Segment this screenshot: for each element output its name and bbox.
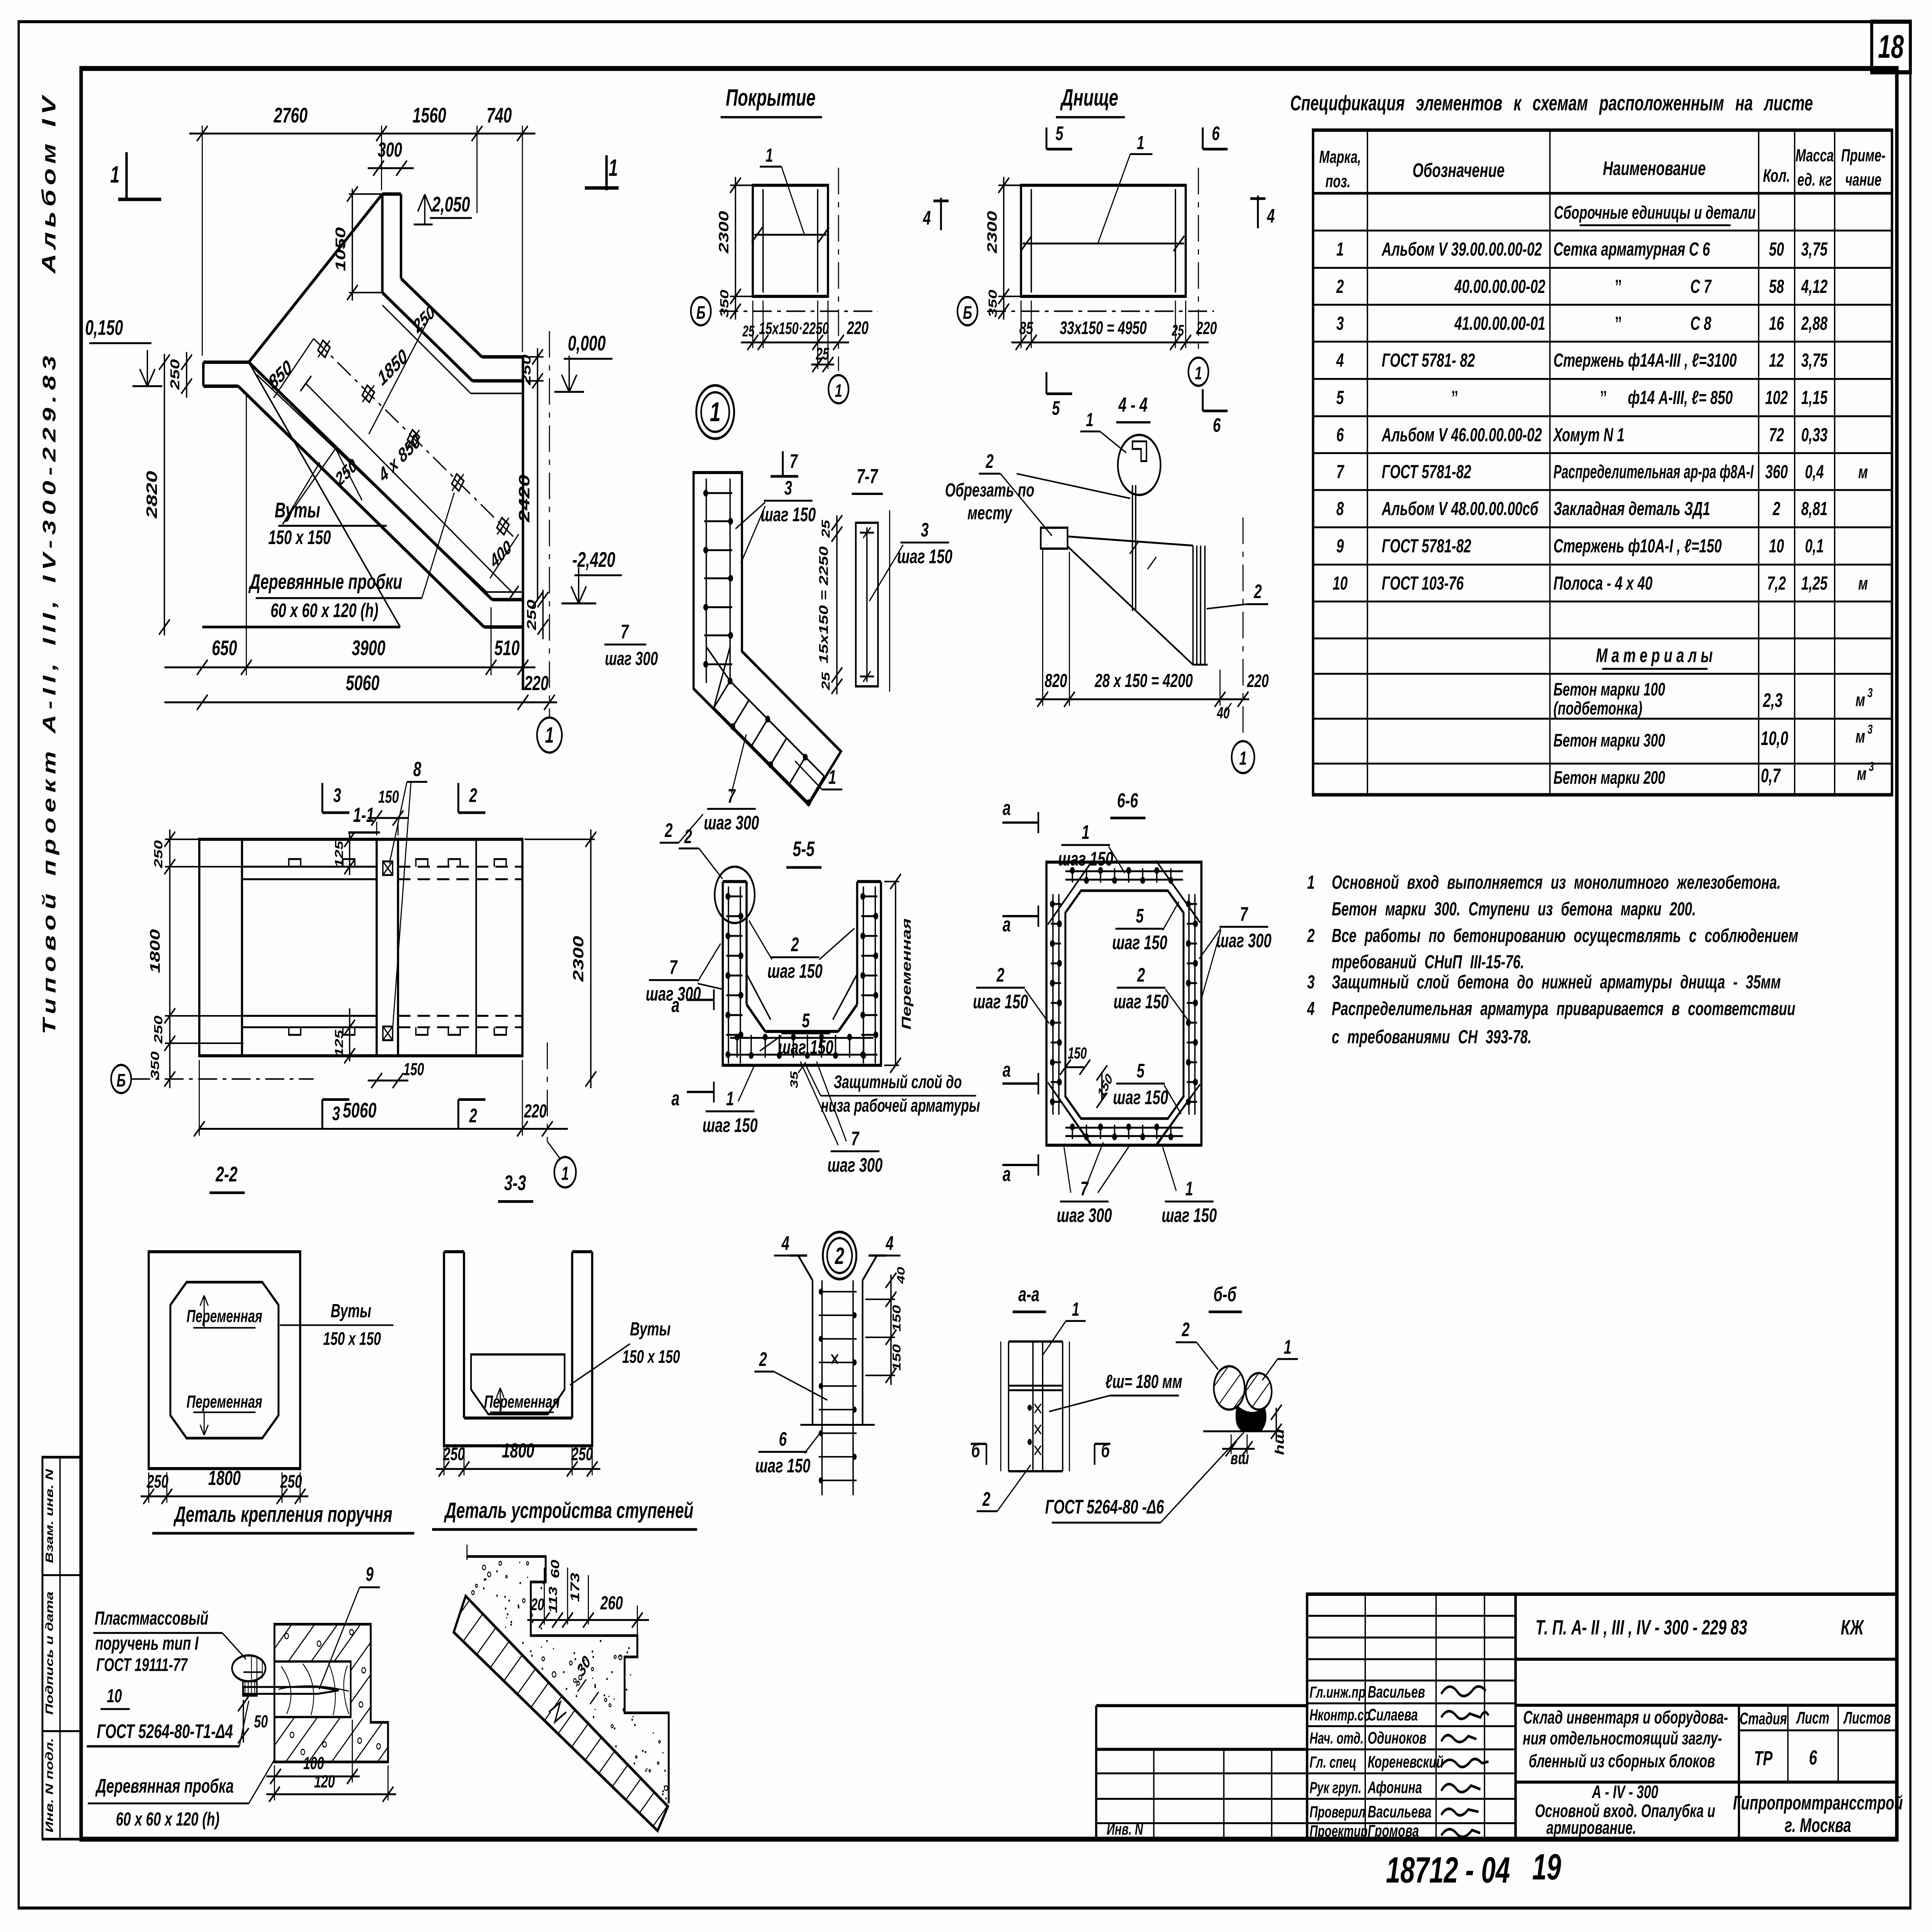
svg-text:1-1: 1-1 xyxy=(353,803,374,826)
svg-text:25: 25 xyxy=(820,672,832,690)
svg-text:7: 7 xyxy=(1336,461,1344,483)
svg-text:510: 510 xyxy=(494,636,520,660)
svg-text:м: м xyxy=(1858,573,1868,594)
svg-text:Гл. спец: Гл. спец xyxy=(1310,1753,1356,1771)
corner wall reinforcement section xyxy=(694,473,841,806)
plan: level mark 0.000 xyxy=(554,332,612,392)
svg-text:2: 2 xyxy=(469,1105,477,1127)
svg-text:Б: Б xyxy=(696,302,706,323)
svg-text:шаг 150: шаг 150 xyxy=(702,1114,758,1136)
5-5: label 7 shag 300 left xyxy=(646,944,723,1005)
svg-text:2: 2 xyxy=(1182,1319,1190,1340)
svg-text:Альбом V 46.00.00.00-02: Альбом V 46.00.00.00-02 xyxy=(1381,424,1542,446)
svg-text:6-6: 6-6 xyxy=(1117,789,1138,812)
plan: diagonal dim 1850 xyxy=(369,318,430,434)
svg-text:м: м xyxy=(1855,690,1865,710)
svg-text:250: 250 xyxy=(280,1471,302,1492)
svg-text:4: 4 xyxy=(923,207,931,229)
title block organisation xyxy=(1733,1792,1903,1837)
specification table grid xyxy=(1313,130,1892,795)
svg-text:150: 150 xyxy=(890,1305,903,1332)
svg-text:250: 250 xyxy=(151,840,165,869)
svg-text:ТР: ТР xyxy=(1754,1747,1772,1770)
svg-text:ГОСТ 5264-80 -Δ6: ГОСТ 5264-80 -Δ6 xyxy=(1045,1496,1164,1518)
svg-text:6: 6 xyxy=(1336,424,1344,446)
svg-text:ния отдельностоящий заглу-: ния отдельностоящий заглу- xyxy=(1523,1728,1722,1748)
a-a: label 1 xyxy=(1043,1299,1086,1354)
5-5: zashchitny sloi note xyxy=(788,1062,980,1116)
svg-text:1050: 1050 xyxy=(333,227,349,271)
title block stage/sheet xyxy=(1740,1708,1891,1770)
plan: wooden plug axis (dash-dot) xyxy=(314,338,513,536)
svg-text:м: м xyxy=(1857,764,1867,784)
handrail: concrete block with recess xyxy=(274,1624,388,1762)
1-1: bottom dims 5060/220 xyxy=(194,1060,568,1136)
svg-text:Все работы по бетонированию: Все работы по бетонированию осуществлять… xyxy=(1332,925,1798,946)
plan: diagonal dim 400 xyxy=(487,534,519,578)
svg-text:60: 60 xyxy=(548,1560,561,1578)
plan: dim 250 left xyxy=(168,352,192,398)
svg-text:Масса: Масса xyxy=(1796,146,1834,165)
title 3-3 xyxy=(498,1172,533,1202)
svg-text:4: 4 xyxy=(781,1233,789,1254)
svg-text:Б: Б xyxy=(117,1070,126,1090)
svg-text:1800: 1800 xyxy=(148,929,163,973)
plan view: entrance walls outline xyxy=(202,194,523,690)
svg-text:Деревянные пробки: Деревянные пробки xyxy=(248,570,402,594)
5-5: label 7 shag 300 bottom xyxy=(800,1061,883,1176)
svg-text:220: 220 xyxy=(1247,671,1269,691)
steps: concrete profile with stipple xyxy=(467,1556,669,1803)
svg-text:0,150: 0,150 xyxy=(85,316,123,340)
1-1: left dims 250/1800/250/350 xyxy=(148,830,243,1088)
svg-text:1: 1 xyxy=(1072,1299,1079,1320)
svg-text:Переменная: Переменная xyxy=(187,1306,262,1326)
svg-text:Т. П. А- II , III , IV - 300: Т. П. А- II , III , IV - 300 - 229 83 xyxy=(1536,1615,1747,1639)
svg-text:10: 10 xyxy=(1333,573,1348,594)
svg-text:а: а xyxy=(1003,796,1011,820)
1-1: dim 2300 right xyxy=(525,830,596,1088)
plan: bottom dim chain 5060/220 xyxy=(164,672,557,710)
bottom slab plan xyxy=(1021,185,1186,297)
4-4: axis bubble 1 xyxy=(1232,517,1255,773)
svg-text:Хомут N 1: Хомут N 1 xyxy=(1553,424,1625,446)
handwritten archive number xyxy=(1386,1847,1561,1891)
1-1: axis bubble 1 xyxy=(547,1043,576,1187)
svg-text:3-3: 3-3 xyxy=(504,1172,526,1195)
svg-text:100: 100 xyxy=(303,1753,324,1773)
svg-text:820: 820 xyxy=(1045,670,1068,691)
svg-text:шаг 150: шаг 150 xyxy=(1058,848,1113,870)
6-6: label 1 shag 150 bottom xyxy=(1162,1147,1217,1227)
svg-text:Полоса - 4 х 40: Полоса - 4 х 40 xyxy=(1553,573,1653,594)
svg-text:1: 1 xyxy=(110,162,119,188)
1-1: section marks 2 xyxy=(458,783,485,1129)
svg-text:2-2: 2-2 xyxy=(215,1163,238,1186)
svg-text:1800: 1800 xyxy=(208,1466,241,1490)
title Dnishche xyxy=(1056,85,1125,117)
svg-text:Днище: Днище xyxy=(1060,85,1118,111)
svg-text:Нач. отд.: Нач. отд. xyxy=(1310,1730,1364,1747)
svg-text:25: 25 xyxy=(1172,322,1184,339)
svg-text:15x150 = 2250: 15x150 = 2250 xyxy=(817,546,831,664)
svg-text:5: 5 xyxy=(1336,387,1344,408)
svg-text:Переменная: Переменная xyxy=(484,1392,560,1412)
svg-text:5: 5 xyxy=(1137,1060,1145,1082)
svg-text:2: 2 xyxy=(1137,964,1145,986)
2-2: bottom dims xyxy=(141,1466,308,1504)
svg-text:6: 6 xyxy=(1213,415,1221,436)
svg-text:а: а xyxy=(672,993,680,1017)
svg-text:Кол.: Кол. xyxy=(1763,165,1790,186)
svg-text:ГОСТ 5781-82: ГОСТ 5781-82 xyxy=(1382,461,1471,483)
svg-text:2: 2 xyxy=(982,1488,990,1510)
section 3-3 channel xyxy=(444,1252,592,1446)
a-a: label 2 bottom xyxy=(977,1465,1031,1511)
page number box 18 xyxy=(1872,22,1910,72)
svg-text:чание: чание xyxy=(1845,170,1881,190)
svg-text:Афонина: Афонина xyxy=(1367,1778,1422,1796)
cover slab: centreline and bubble 1 xyxy=(828,168,849,403)
svg-text:4 - 4: 4 - 4 xyxy=(1118,393,1148,416)
svg-text:2,3: 2,3 xyxy=(1763,690,1783,711)
svg-text:Б: Б xyxy=(963,302,972,323)
svg-text:ГОСТ 5781-82: ГОСТ 5781-82 xyxy=(1382,536,1471,557)
svg-text:а: а xyxy=(672,1087,680,1110)
cover slab: axis B xyxy=(691,297,878,325)
svg-text:1: 1 xyxy=(1284,1336,1291,1358)
svg-text:3: 3 xyxy=(1307,971,1315,993)
svg-text:шаг 150: шаг 150 xyxy=(755,1455,810,1477)
svg-text:2820: 2820 xyxy=(143,471,160,519)
svg-text:33x150 = 4950: 33x150 = 4950 xyxy=(1060,318,1147,338)
plan: wooden plugs xyxy=(318,340,509,535)
svg-text:Стадия: Стадия xyxy=(1740,1709,1787,1728)
svg-text:1: 1 xyxy=(545,723,554,747)
svg-text:Листов: Листов xyxy=(1843,1708,1891,1727)
plan: dim 1050 xyxy=(333,186,384,300)
plan: section mark 1 left xyxy=(110,152,161,201)
svg-text:поз.: поз. xyxy=(1325,172,1350,191)
svg-text:3: 3 xyxy=(1869,760,1874,774)
svg-text:113: 113 xyxy=(546,1587,560,1613)
section 1-1 slab xyxy=(199,839,522,1056)
svg-text:740: 740 xyxy=(486,104,512,128)
svg-text:Переменная: Переменная xyxy=(187,1392,262,1412)
6-6: label 2 shag 150 left xyxy=(973,964,1049,1023)
bottom slab: axis bubble 1 right xyxy=(1189,168,1209,386)
svg-text:2: 2 xyxy=(791,934,799,956)
svg-text:ГОСТ 19111-77: ГОСТ 19111-77 xyxy=(96,1655,188,1675)
1-1: section marks 3 xyxy=(322,783,349,1129)
plan: haunch (vuty) thin lines xyxy=(257,305,523,592)
svg-text:шаг 300: шаг 300 xyxy=(1216,930,1272,952)
svg-text:Нконтр.сс: Нконтр.сс xyxy=(1310,1706,1370,1724)
svg-text:Одиноков: Одиноков xyxy=(1368,1728,1427,1747)
title block signatures xyxy=(1441,1686,1488,1837)
svg-text:Васильева: Васильева xyxy=(1368,1802,1432,1821)
7-7 label 3 shag 150 xyxy=(869,519,952,601)
b-b: vsh dim xyxy=(1222,1434,1255,1468)
svg-text:шаг 150: шаг 150 xyxy=(1112,932,1167,954)
svg-text:50: 50 xyxy=(254,1712,268,1731)
svg-text:Вуты: Вуты xyxy=(630,1318,670,1340)
svg-text:7,2: 7,2 xyxy=(1767,573,1786,594)
svg-text:Распределительная ар-ра ф8А-I: Распределительная ар-ра ф8А-I xyxy=(1553,461,1754,483)
svg-text:Сетка арматурная С 6: Сетка арматурная С 6 xyxy=(1553,239,1710,260)
plan: bottom dim chain 650/3900/510 xyxy=(164,396,535,675)
svg-text:шаг 150: шаг 150 xyxy=(897,546,952,567)
title 4-4 xyxy=(1116,393,1151,422)
svg-text:ф14 А-III, ℓ= 850: ф14 А-III, ℓ= 850 xyxy=(1628,387,1733,408)
element 2 column reinforcement xyxy=(789,1255,886,1495)
6-6: small dims 150 xyxy=(1060,1044,1115,1108)
svg-text:3,75: 3,75 xyxy=(1801,239,1828,260)
svg-text:поручень тип I: поручень тип I xyxy=(95,1633,199,1654)
svg-text:Васильев: Васильев xyxy=(1368,1682,1425,1701)
bottom slab: section mark 4 left xyxy=(923,198,949,230)
svg-text:1: 1 xyxy=(710,397,721,428)
plan: dim 2820 left xyxy=(143,354,170,636)
svg-text:5: 5 xyxy=(1052,397,1060,419)
svg-text:250: 250 xyxy=(524,600,539,631)
svg-text:60 x 60 x 120 (h): 60 x 60 x 120 (h) xyxy=(116,1808,219,1830)
1-1: dim 150 bottom xyxy=(368,1060,424,1088)
svg-text:Распределительная арматура: Распределительная арматура приваривается… xyxy=(1332,998,1795,1019)
svg-text:2: 2 xyxy=(835,1243,844,1269)
6-6: a section marks left xyxy=(1002,796,1038,1185)
svg-text:6: 6 xyxy=(1212,122,1219,144)
svg-text:173: 173 xyxy=(568,1573,582,1602)
svg-text:Кореневский: Кореневский xyxy=(1368,1752,1444,1771)
svg-text:Бетон марки 200: Бетон марки 200 xyxy=(1553,767,1665,788)
svg-text:3900: 3900 xyxy=(352,636,385,660)
svg-text:2300: 2300 xyxy=(716,211,731,254)
4-4: label 2 obrezat po mestu xyxy=(945,451,1131,536)
title handrail fixing detail xyxy=(152,1502,414,1533)
svg-text:0,7: 0,7 xyxy=(1761,765,1781,786)
svg-text:1: 1 xyxy=(1185,1178,1193,1200)
svg-text:Марка,: Марка, xyxy=(1319,147,1361,167)
plan: diagonal dim 850 xyxy=(265,338,314,398)
5-5: label 5 shag 150 mid xyxy=(760,1010,833,1058)
plan: dim 250 right top xyxy=(519,348,544,390)
svg-text:250: 250 xyxy=(168,359,182,390)
5-5: label 2 shag 150 top xyxy=(749,921,854,982)
svg-text:1: 1 xyxy=(609,155,618,181)
svg-text:Вуты: Вуты xyxy=(331,1300,371,1321)
svg-text:КЖ: КЖ xyxy=(1841,1615,1864,1639)
svg-text:шаг 300: шаг 300 xyxy=(1057,1205,1112,1226)
svg-text:3: 3 xyxy=(921,519,929,541)
svg-text:Покрытие: Покрытие xyxy=(726,85,815,111)
4-4: embedded element xyxy=(1041,485,1207,665)
svg-text:1: 1 xyxy=(765,145,773,166)
1-1: dim 150 top xyxy=(368,787,408,835)
label 2 leader (corner wall) xyxy=(660,814,703,843)
bottom slab: section mark 6 bottom xyxy=(1203,389,1228,436)
svg-text:Пластмассовый: Пластмассовый xyxy=(95,1608,208,1629)
svg-text:1: 1 xyxy=(1307,872,1315,893)
title steps construction detail xyxy=(432,1498,697,1529)
svg-text:Переменная: Переменная xyxy=(899,918,914,1030)
plan: stair centreline xyxy=(300,376,519,601)
svg-text:C 7: C 7 xyxy=(1690,276,1712,297)
svg-text:ед. кг: ед. кг xyxy=(1798,170,1832,190)
plan: dim 300 xyxy=(368,138,414,176)
svg-text:ˮ: ˮ xyxy=(1600,387,1607,408)
svg-text:низа рабочей арматуры: низа рабочей арматуры xyxy=(821,1095,980,1116)
svg-text:2300: 2300 xyxy=(985,211,1000,254)
a-a joint detail xyxy=(1001,1342,1070,1471)
svg-text:2: 2 xyxy=(1253,581,1262,602)
svg-text:2: 2 xyxy=(996,964,1004,986)
title block left extension xyxy=(1096,1706,1307,1839)
bottom slab: section mark 4 right xyxy=(1250,196,1275,228)
svg-text:Деревянная пробка: Деревянная пробка xyxy=(95,1776,234,1797)
svg-text:3,75: 3,75 xyxy=(1801,350,1828,371)
bottom slab: bottom dims xyxy=(1011,301,1217,350)
svg-text:35: 35 xyxy=(788,1071,800,1088)
svg-text:10,0: 10,0 xyxy=(1761,728,1788,749)
svg-text:7: 7 xyxy=(728,786,736,807)
svg-text:Проектир.: Проектир. xyxy=(1310,1822,1371,1840)
svg-text:2: 2 xyxy=(1336,276,1344,297)
svg-text:ℓш= 180 мм: ℓш= 180 мм xyxy=(1105,1371,1182,1392)
svg-text:6: 6 xyxy=(779,1429,787,1450)
5-5: peremennaya right xyxy=(884,874,913,1073)
svg-text:Бетон марки 100: Бетон марки 100 xyxy=(1553,679,1665,699)
svg-text:3: 3 xyxy=(1867,686,1872,700)
1-1: axis B xyxy=(111,1065,314,1093)
svg-text:Защитный слой бетона до ни: Защитный слой бетона до нижней арматуры … xyxy=(1332,971,1781,993)
svg-text:120: 120 xyxy=(314,1772,335,1791)
svg-text:220: 220 xyxy=(524,1100,547,1122)
6-6: label 2 shag 150 centre xyxy=(1114,964,1188,1019)
svg-text:шаг 300: шаг 300 xyxy=(704,812,759,834)
svg-text:18: 18 xyxy=(1878,29,1904,65)
plan: level mark 0.150 xyxy=(85,316,162,386)
svg-text:58: 58 xyxy=(1769,276,1784,297)
plan: dim 2420 right xyxy=(516,390,543,607)
section 2-2 box xyxy=(149,1252,393,1468)
general notes xyxy=(1307,872,1798,1048)
svg-text:Стержень ф10А-I , ℓ=150: Стержень ф10А-I , ℓ=150 xyxy=(1553,536,1722,557)
svg-text:шаг 150: шаг 150 xyxy=(973,991,1028,1012)
svg-text:2: 2 xyxy=(1307,925,1315,946)
title block signature table xyxy=(1307,1594,1516,1839)
svg-text:А - IV - 300: А - IV - 300 xyxy=(1592,1782,1658,1802)
svg-text:3: 3 xyxy=(333,785,341,806)
plan: section mark 1 right xyxy=(585,155,619,190)
svg-text:ˮ: ˮ xyxy=(1615,313,1622,334)
7-7 dims 25/15x150=2250/25 xyxy=(817,515,842,694)
6-6: label 5 shag 150 lower xyxy=(1113,1060,1181,1114)
svg-text:1: 1 xyxy=(1086,409,1093,430)
svg-text:1: 1 xyxy=(1239,748,1247,769)
5-5: label 1 shag 150 bottom xyxy=(702,1065,758,1136)
svg-text:7-7: 7-7 xyxy=(857,464,879,488)
svg-text:250: 250 xyxy=(151,1015,165,1044)
svg-text:5060: 5060 xyxy=(343,1099,376,1122)
svg-text:5: 5 xyxy=(1056,122,1064,144)
4-4: leader 1 and detail circle xyxy=(1080,409,1161,495)
1-1: dim 125 top xyxy=(333,831,355,875)
svg-text:Деталь устройства ступеней: Деталь устройства ступеней xyxy=(444,1498,693,1523)
plan: dim 250 lower left rotated xyxy=(332,450,362,500)
svg-text:12: 12 xyxy=(1769,350,1784,371)
6-6: label 5 shag 150 upper xyxy=(1112,902,1179,954)
6-6: label 7 shag 300 bottom xyxy=(1057,1142,1130,1226)
svg-text:1800: 1800 xyxy=(502,1439,534,1462)
svg-text:6: 6 xyxy=(1809,1746,1817,1769)
title block roles and names xyxy=(1310,1682,1444,1840)
b-b: leaders 2 and 1 xyxy=(1176,1319,1298,1380)
svg-text:7: 7 xyxy=(1240,903,1248,925)
svg-text:Проверил: Проверил xyxy=(1310,1803,1366,1821)
svg-text:вш: вш xyxy=(1231,1449,1249,1468)
svg-text:1560: 1560 xyxy=(413,104,446,128)
bottom slab: axis B xyxy=(957,297,1214,325)
title block right box xyxy=(1515,1594,1897,1839)
svg-text:250: 250 xyxy=(571,1444,593,1464)
a-a: GOST 5264-80 note xyxy=(1045,1432,1244,1522)
svg-text:5-5: 5-5 xyxy=(793,837,815,861)
svg-text:ГОСТ 5781- 82: ГОСТ 5781- 82 xyxy=(1382,350,1475,371)
svg-text:2: 2 xyxy=(759,1349,767,1370)
plan: axis line and bubble 1 xyxy=(537,331,562,753)
handrail: label wooden plug xyxy=(88,1760,274,1830)
svg-text:м: м xyxy=(1858,462,1868,482)
svg-text:0,33: 0,33 xyxy=(1801,424,1828,446)
svg-text:Альбом V 39.00.00.00-02: Альбом V 39.00.00.00-02 xyxy=(1381,239,1542,260)
section 5-5 U-shape xyxy=(723,881,881,1065)
svg-text:месту: месту xyxy=(968,502,1013,524)
plan: level mark 2.050 xyxy=(414,193,472,224)
svg-text:40.00.00.00-02: 40.00.00.00-02 xyxy=(1454,276,1545,297)
svg-text:Альбом IV: Альбом IV xyxy=(38,92,60,274)
svg-text:15x150·2250: 15x150·2250 xyxy=(759,319,829,337)
svg-text:2420: 2420 xyxy=(516,474,533,522)
svg-text:10: 10 xyxy=(107,1685,122,1706)
svg-text:8,81: 8,81 xyxy=(1801,498,1828,519)
svg-text:4: 4 xyxy=(1267,205,1275,227)
element 2: labels 4 xyxy=(774,1233,901,1256)
label 3 shag 150 (corner wall) xyxy=(735,477,816,563)
svg-text:4,12: 4,12 xyxy=(1801,276,1828,297)
svg-text:72: 72 xyxy=(1769,424,1784,446)
svg-text:Инв. N: Инв. N xyxy=(1107,1820,1143,1838)
5-5: detail circle 2 xyxy=(679,826,755,923)
3-3: bottom dims xyxy=(436,1439,600,1477)
svg-text:шаг 300: шаг 300 xyxy=(827,1155,883,1176)
svg-text:Лист: Лист xyxy=(1796,1708,1829,1727)
svg-text:г. Москва: г. Москва xyxy=(1785,1815,1851,1836)
a-a: weld length note xyxy=(1049,1371,1182,1412)
svg-text:ГОСТ 103-76: ГОСТ 103-76 xyxy=(1382,573,1464,594)
svg-text:350: 350 xyxy=(718,289,731,317)
svg-text:Альбом V 48.00.00.00сб: Альбом V 48.00.00.00сб xyxy=(1381,498,1539,519)
svg-text:Инв. N подл.: Инв. N подл. xyxy=(44,1738,56,1832)
section 7-7 mesh strip xyxy=(856,510,889,692)
svg-text:1: 1 xyxy=(1082,821,1090,843)
svg-text:1,15: 1,15 xyxy=(1801,387,1828,408)
plan: dim 250 right bottom xyxy=(524,590,549,639)
b-b: hsh dim xyxy=(1271,1405,1287,1455)
svg-text:1: 1 xyxy=(1137,132,1144,153)
title block object name xyxy=(1523,1707,1728,1771)
bottom slab: dim 2300/350 left xyxy=(985,177,1024,320)
